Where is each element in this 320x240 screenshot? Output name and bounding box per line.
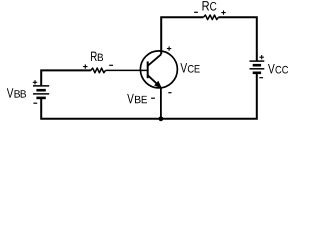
- label VBB: [7, 88, 26, 97]
- wire left loop top: battery VBB top lead up and right to RB: [41, 70, 91, 86]
- wire from RB to transistor base: [106, 69, 148, 71]
- transistor Q1 emitter diagonal: [148, 75, 158, 84]
- transistor Q1 emitter arrowhead: [155, 82, 162, 88]
- label VCC: [268, 64, 288, 73]
- plus sign VBB: [33, 80, 37, 84]
- transistor Q1 collector diagonal: [148, 54, 162, 66]
- minus sign VCE: [168, 92, 171, 94]
- battery VBB: [33, 86, 49, 98]
- junction node dot: [159, 116, 164, 121]
- minus sign VBE: [151, 97, 155, 99]
- wire bottom rail: VBB bottom lead, bottom rail, VCC bottom lead: [41, 73, 257, 119]
- resistor RB: [91, 68, 106, 73]
- label VBE: [127, 94, 147, 103]
- resistor RC: [203, 15, 218, 20]
- minus sign right of RB: [109, 64, 113, 66]
- minus sign VCC: [259, 77, 263, 79]
- wire emitter down to bottom rail: [160, 87, 162, 119]
- transistor Q1 base bar: [147, 61, 149, 78]
- label RC: [203, 1, 217, 10]
- wire collector up and top rail to RC: [161, 17, 203, 54]
- wire RC to top-right corner down to VCC: [218, 17, 256, 61]
- minus sign VBB: [33, 102, 37, 104]
- plus sign right of RC: [221, 10, 225, 14]
- label VCE: [180, 63, 199, 72]
- minus sign left of RC: [194, 11, 198, 13]
- transistor Q1 circle: [140, 51, 177, 88]
- battery VCC: [250, 61, 265, 73]
- label RB: [91, 52, 103, 61]
- plus sign left of RB: [83, 64, 87, 68]
- plus sign VCE: [167, 46, 171, 50]
- plus sign VCC: [260, 55, 264, 59]
